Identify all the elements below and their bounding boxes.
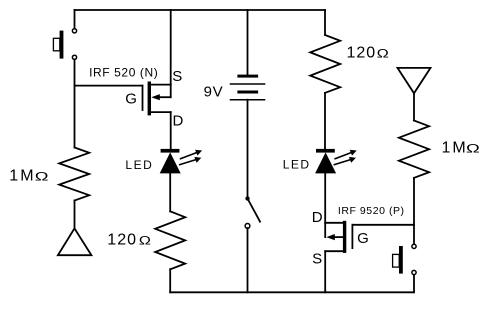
wire Q2 gate to right chain bbox=[352, 224, 414, 226]
label LED (right) bbox=[283, 158, 311, 172]
svg-text:120: 120 bbox=[347, 45, 377, 62]
label 120 ohm (right) bbox=[347, 45, 389, 62]
pin label G of Q1 bbox=[125, 90, 137, 107]
pin label D of Q1 bbox=[173, 112, 184, 129]
label LED (left) bbox=[125, 158, 153, 172]
label 120 ohm (left) bbox=[107, 232, 151, 249]
svg-text:D: D bbox=[173, 112, 184, 129]
svg-text:S: S bbox=[172, 68, 182, 85]
resistor R3 120 ohm (right) bbox=[310, 35, 340, 93]
svg-text:1M: 1M bbox=[9, 168, 35, 185]
wire 120 ohm right top lead bbox=[324, 10, 326, 35]
svg-text:G: G bbox=[357, 230, 369, 247]
battery B1 9V bbox=[230, 75, 266, 100]
pushbutton S2 bbox=[393, 244, 417, 274]
svg-text:Ω: Ω bbox=[377, 47, 389, 60]
svg-text:G: G bbox=[125, 90, 137, 107]
wire battery top lead bbox=[247, 10, 249, 75]
svg-text:9V: 9V bbox=[204, 83, 224, 100]
wire R1 to touch plate bbox=[74, 201, 76, 229]
svg-text:Ω: Ω bbox=[35, 171, 49, 184]
LED D1 bbox=[160, 149, 202, 174]
wire LED D2 to Q2 drain bbox=[324, 173, 326, 223]
wire gate of Q1 bbox=[75, 85, 143, 87]
svg-text:1M: 1M bbox=[442, 139, 468, 156]
svg-text:S: S bbox=[312, 250, 322, 267]
svg-text:LED: LED bbox=[283, 158, 311, 172]
wire antenna to resistor R4 bbox=[413, 93, 415, 120]
wire Q1 source to top rail bbox=[170, 10, 172, 85]
pin label D of Q2 bbox=[312, 209, 323, 226]
wire switch to bottom rail bbox=[247, 228, 249, 292]
wire pushbutton S1 top lead bbox=[74, 10, 76, 28]
pin label G of Q2 bbox=[357, 230, 369, 247]
wire LED D1 to resistor R2 bbox=[169, 173, 171, 211]
transistor Q1 IRF 520 N-channel MOSFET bbox=[143, 82, 171, 116]
svg-text:120: 120 bbox=[107, 232, 137, 249]
wire bottom rail bbox=[170, 291, 414, 293]
label 9V bbox=[204, 83, 224, 100]
wire pushbutton S2 to bottom rail bbox=[413, 275, 415, 292]
resistor R2 120 ohm (left) bbox=[155, 211, 185, 269]
wire Q2 source to bottom rail bbox=[324, 251, 326, 292]
touch plate / antenna (right) bbox=[398, 68, 431, 93]
switch S3 SPST (open) bbox=[245, 196, 260, 228]
svg-text:Ω: Ω bbox=[139, 234, 151, 247]
resistor R1 1M ohm (left) bbox=[59, 148, 89, 201]
label IRF 520 (N) bbox=[89, 65, 158, 79]
wire R4 to pushbutton S2 bbox=[413, 178, 415, 244]
svg-text:Ω: Ω bbox=[466, 143, 480, 156]
svg-text:IRF 520 (N): IRF 520 (N) bbox=[89, 65, 158, 79]
wire top rail bbox=[75, 9, 326, 11]
wire Q1 drain to LED D1 bbox=[170, 112, 172, 149]
wire battery to switch bbox=[247, 100, 249, 199]
resistor R4 1M ohm (right) bbox=[399, 121, 429, 178]
touch plate / antenna (left) bbox=[58, 228, 92, 255]
wire R2 to bottom rail bbox=[169, 269, 171, 292]
transistor Q2 IRF 9520 P-channel MOSFET bbox=[325, 221, 352, 253]
label 1M ohm (left) bbox=[9, 168, 48, 185]
LED D2 bbox=[315, 149, 357, 174]
wire left vertical (button to resistor) bbox=[74, 60, 76, 148]
label IRF 9520 (P) bbox=[338, 205, 405, 217]
svg-text:LED: LED bbox=[125, 158, 153, 172]
label 1M ohm (right) bbox=[442, 139, 480, 156]
pin label S of Q1 bbox=[172, 68, 182, 85]
wire R3 to LED D2 bbox=[324, 93, 326, 149]
pushbutton S1 bbox=[53, 29, 76, 60]
pin label S of Q2 bbox=[312, 250, 322, 267]
svg-text:IRF 9520 (P): IRF 9520 (P) bbox=[338, 205, 405, 217]
svg-text:D: D bbox=[312, 209, 323, 226]
